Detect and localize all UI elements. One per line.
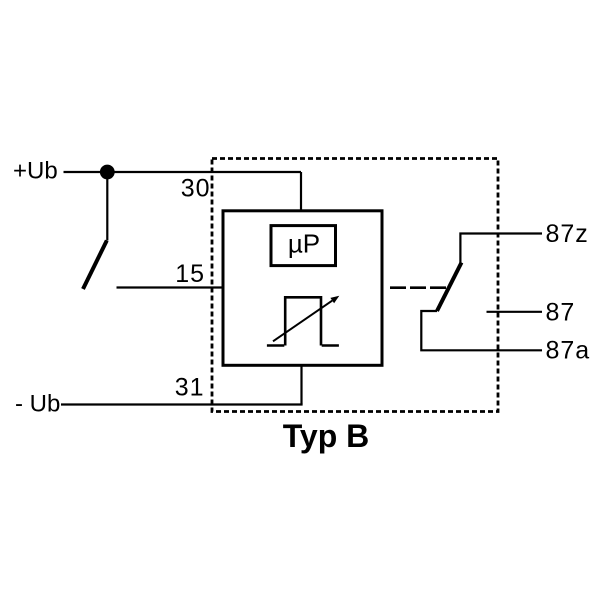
wire 87 stub — [487, 311, 543, 313]
relay contact blade K1 — [437, 263, 462, 312]
adjustable pulse-width symbol — [267, 297, 339, 345]
control module box — [223, 211, 382, 365]
wire terminal 15 — [117, 286, 224, 288]
switch S1 blade (open) — [83, 241, 107, 290]
contact seat and wire 87a — [421, 311, 542, 350]
svg-text:Typ B: Typ B — [283, 418, 370, 454]
svg-text:15: 15 — [175, 260, 205, 288]
svg-text:87z: 87z — [546, 220, 589, 248]
svg-text:31: 31 — [175, 374, 205, 402]
svg-text:+Ub: +Ub — [13, 158, 58, 185]
svg-text:87: 87 — [546, 299, 576, 327]
svg-text:µP: µP — [288, 229, 320, 259]
relay housing outline (dashed) — [212, 159, 498, 412]
svg-text:- Ub: - Ub — [15, 391, 60, 418]
pulse adjust arrow — [273, 296, 339, 342]
svg-text:87a: 87a — [546, 337, 591, 365]
wire 87z — [460, 234, 542, 264]
actuation link (dashed) — [390, 286, 446, 289]
microprocessor block µP — [271, 226, 336, 266]
wire -Ub return — [61, 403, 303, 405]
wire top drop to module — [300, 172, 302, 212]
svg-text:30: 30 — [181, 175, 211, 203]
wire bottom drop from module — [300, 366, 302, 405]
wire +Ub feed — [64, 171, 302, 173]
wire switch drop — [106, 172, 108, 241]
junction dot — [100, 165, 115, 180]
